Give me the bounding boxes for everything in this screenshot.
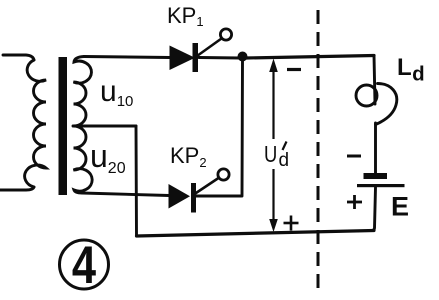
winding secondary u20 (bottom half): [74, 126, 93, 193]
svg-text:E: E: [391, 192, 409, 222]
svg-text:U: U: [264, 142, 277, 167]
label battery minus: [347, 155, 361, 158]
label plus at Ud bottom: [284, 216, 299, 231]
svg-text:KP2: KP2: [170, 143, 207, 170]
wire center-tap riser down: [135, 126, 138, 236]
label battery plus: [347, 195, 362, 209]
svg-text:4: 4: [72, 236, 96, 295]
winding primary (transformer left coil): [25, 60, 46, 187]
svg-text:KP1: KP1: [167, 3, 204, 29]
thyristor KP2: [169, 169, 230, 213]
winding secondary u10 (top half): [74, 57, 92, 127]
wire KP1 cathode to junction: [199, 56, 240, 59]
node junction dot: [238, 52, 248, 62]
svg-text:Ld: Ld: [397, 54, 425, 86]
battery E plates: [357, 173, 405, 187]
svg-text:u20: u20: [90, 138, 126, 177]
svg-text:d: d: [279, 150, 290, 171]
wire primary top lead: [3, 55, 34, 60]
wire bottom rail: [137, 231, 375, 237]
wire secondary top to KP1 anode: [84, 57, 170, 58]
wire battery to bottom rail: [371, 188, 376, 231]
thyristor KP1: [170, 29, 232, 72]
svg-text:u10: u10: [100, 75, 133, 110]
arrow Ud measurement (double-headed): [272, 64, 274, 221]
wire junction to top-right corner: [246, 56, 374, 59]
label Ud: [264, 142, 277, 167]
wire secondary bottom to KP2 anode: [82, 193, 169, 196]
inductor Ld loop: [356, 84, 397, 125]
label minus at Ud top: [287, 68, 301, 71]
wire right side down to inductor: [374, 56, 375, 105]
transformer core: [59, 57, 68, 195]
label circled 4: [60, 240, 109, 289]
wire KP2 cathode to riser: [196, 195, 241, 198]
wire primary bottom lead: [0, 187, 34, 190]
wire inductor lower to battery: [374, 123, 377, 173]
wire riser junction-to-KP2: [241, 60, 244, 196]
dashed section line: [317, 10, 320, 291]
wire center tap: [73, 125, 136, 128]
